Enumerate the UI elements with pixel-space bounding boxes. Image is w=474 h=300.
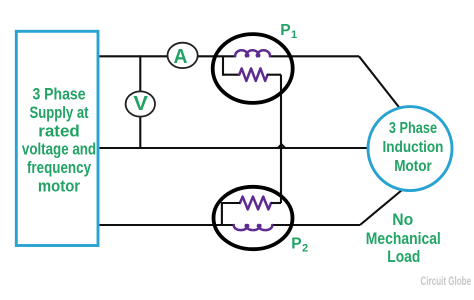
svg-text:3 Phase: 3 Phase	[32, 85, 85, 104]
P2 ellipse outline	[214, 187, 293, 249]
svg-text:1: 1	[291, 29, 297, 41]
svg-text:P: P	[280, 22, 290, 39]
wire bottom: P2 coil to corner	[272, 224, 360, 226]
wire voltmeter drop upper	[139, 55, 141, 92]
supply box	[16, 31, 98, 245]
wattmeter P2	[214, 187, 309, 255]
wire diagonal top to motor	[359, 56, 402, 111]
svg-text:Mechanical: Mechanical	[366, 230, 441, 248]
P1 left connector	[223, 56, 239, 74]
svg-text:motor: motor	[38, 177, 81, 196]
voltmeter V	[126, 91, 155, 116]
ammeter A	[168, 43, 198, 68]
supply box label	[22, 85, 96, 196]
wire bottom: supply to P2 coil	[100, 224, 234, 226]
P2 pressure coil resistor	[240, 197, 271, 210]
P1 right connector	[268, 74, 282, 76]
junction hop bump	[278, 144, 285, 148]
P2 right connector	[271, 202, 281, 204]
svg-text:No: No	[392, 211, 413, 229]
svg-text:A: A	[174, 46, 188, 68]
wire diagonal bottom to motor	[360, 190, 402, 225]
svg-text:Induction: Induction	[383, 139, 444, 156]
svg-text:voltage and: voltage and	[22, 140, 96, 159]
wattmeter P1	[213, 22, 297, 103]
no mechanical load label	[366, 211, 441, 266]
svg-text:2: 2	[302, 243, 308, 255]
svg-text:frequency: frequency	[27, 158, 92, 177]
svg-text:Motor: Motor	[394, 158, 432, 175]
motor label	[383, 120, 444, 175]
svg-text:V: V	[133, 93, 148, 115]
P2 left connector	[222, 203, 240, 225]
svg-text:rated: rated	[38, 121, 80, 140]
P1 current coil	[235, 50, 270, 56]
wire middle: supply to motor	[100, 147, 369, 149]
P1 pressure coil resistor	[239, 68, 267, 81]
P2 current coil	[234, 225, 273, 230]
wire vertical interconnect P1-P2	[280, 75, 282, 203]
svg-text:P: P	[291, 235, 301, 252]
motor circle	[368, 107, 452, 191]
wire voltmeter drop lower	[139, 117, 141, 149]
svg-text:Supply at: Supply at	[29, 103, 88, 122]
svg-text:3 Phase: 3 Phase	[389, 120, 437, 137]
wire top: supply to P1 coil	[100, 55, 236, 57]
svg-text:Load: Load	[387, 248, 420, 266]
P1 ellipse outline	[213, 34, 293, 103]
svg-text:Circuit Globe: Circuit Globe	[421, 276, 472, 288]
wire top: P1 coil to corner	[270, 55, 359, 57]
